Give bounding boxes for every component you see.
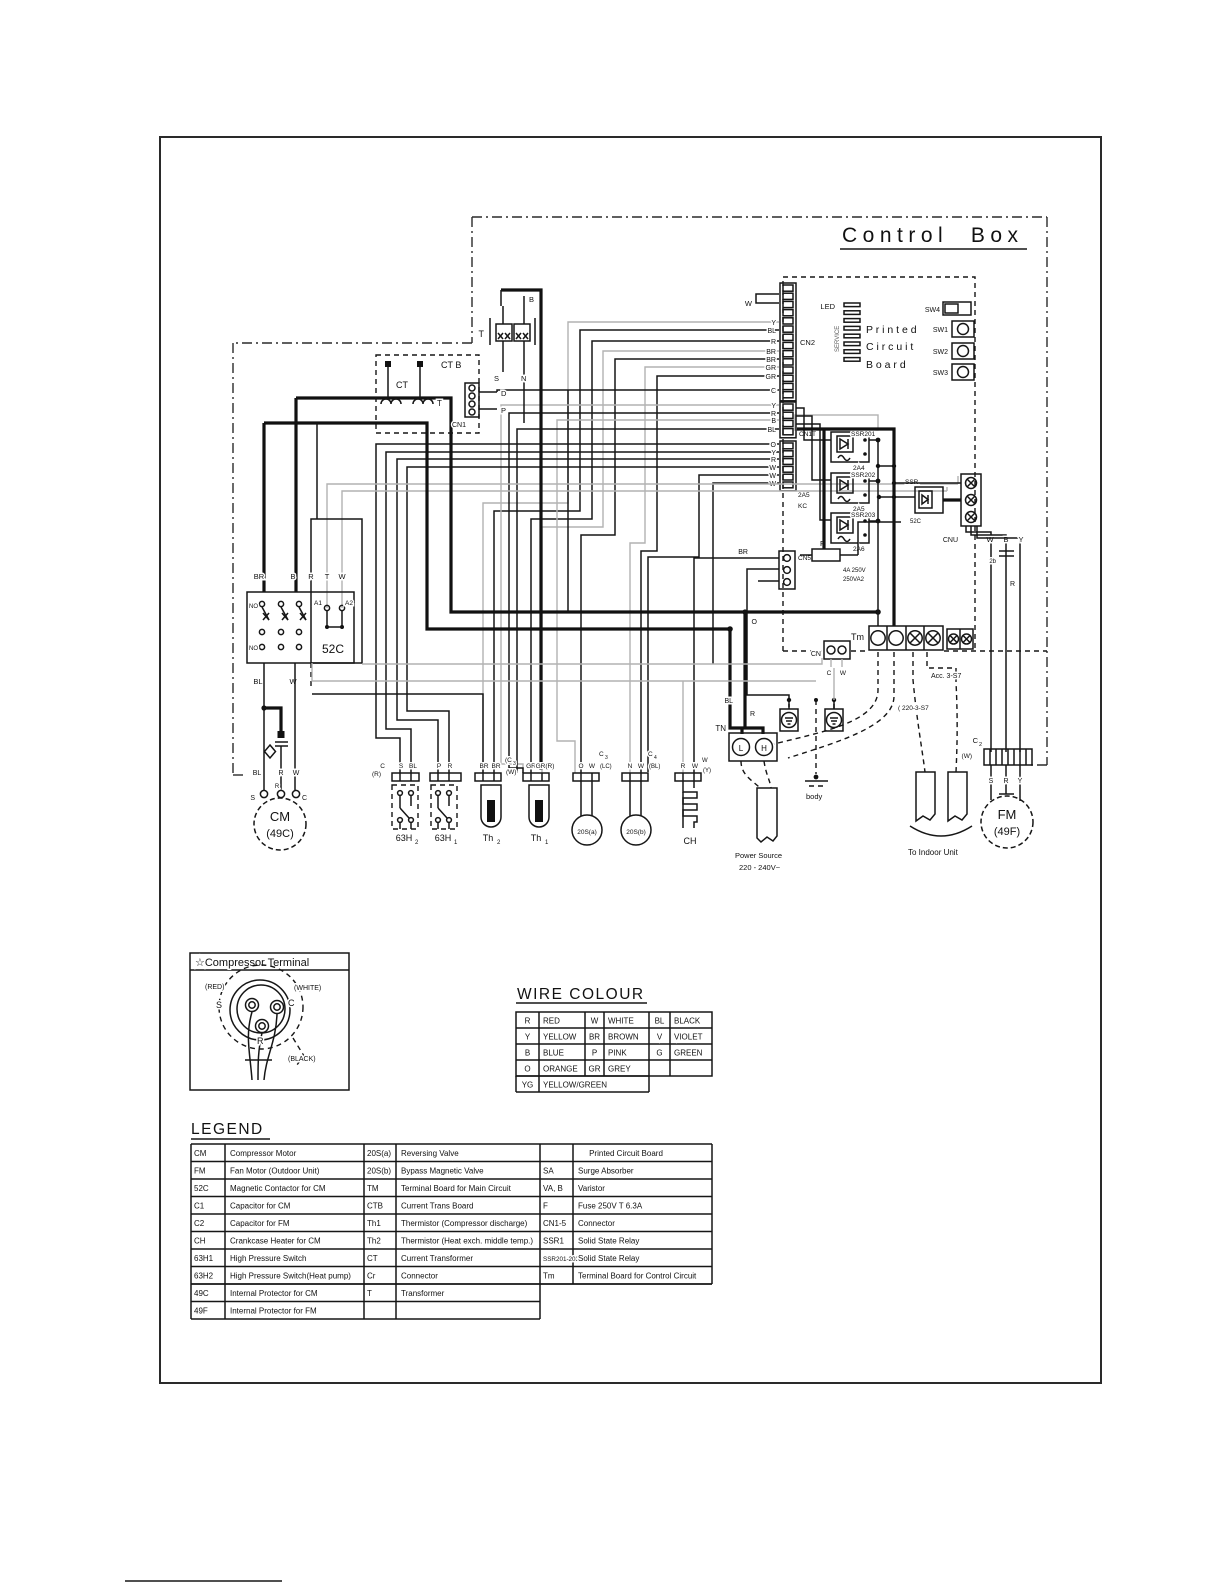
current transformer CT: [381, 361, 433, 404]
current transformer CT box (dashed): [376, 355, 479, 433]
earth ground 2: [825, 668, 843, 731]
svg-text:BL: BL: [409, 763, 417, 770]
PCB text label: [866, 324, 917, 371]
svg-text:Solid State Relay: Solid State Relay: [578, 1237, 639, 1246]
wire 52C coil A1 (grey, long): [327, 484, 958, 608]
svg-text:GREY: GREY: [608, 1065, 631, 1074]
svg-text:(WHITE): (WHITE): [294, 985, 321, 992]
svg-text:Y: Y: [771, 450, 776, 457]
svg-text:Solid State Relay: Solid State Relay: [578, 1254, 639, 1263]
dashed stub below 52C: [310, 663, 312, 690]
svg-text:P: P: [501, 406, 506, 415]
svg-text:Current Transformer: Current Transformer: [401, 1254, 473, 1263]
svg-text:YG: YG: [522, 1081, 534, 1090]
svg-text:63H: 63H: [396, 833, 413, 843]
svg-text:R: R: [525, 1017, 531, 1026]
wire W hook at CN2 top: [745, 294, 779, 308]
svg-text:LED: LED: [820, 302, 835, 311]
fuse F: [800, 522, 901, 583]
wire heavy bus to Tm: [869, 429, 961, 626]
earth ground 1: [780, 704, 798, 731]
wire CN2 pin BR to lower component: [581, 357, 779, 773]
labels BL R W above CM: [253, 770, 300, 790]
svg-text:ORANGE: ORANGE: [543, 1065, 578, 1074]
wire SSR output bus: [869, 438, 896, 626]
grey group outline on PCB: [795, 415, 878, 430]
svg-text:63H2: 63H2: [194, 1272, 214, 1281]
solenoid valve 20S(b): [621, 773, 651, 845]
switch SW3: [933, 364, 974, 380]
svg-text:Y: Y: [771, 403, 776, 410]
wire CN2 pin BR to lower component: [542, 349, 779, 773]
svg-text:Bypass Magnetic Valve: Bypass Magnetic Valve: [401, 1167, 484, 1176]
svg-text:W: W: [745, 299, 753, 308]
thermistor Th1: [523, 773, 549, 846]
svg-text:B o a r d: B o a r d: [866, 359, 906, 371]
svg-text:O: O: [578, 763, 583, 770]
svg-text:T: T: [479, 329, 485, 339]
wire colour table: [516, 1012, 712, 1092]
svg-text:R: R: [257, 1036, 264, 1046]
wire CN4 pin W3: [713, 483, 779, 664]
svg-text:20S(a): 20S(a): [577, 829, 597, 836]
svg-text:3: 3: [605, 755, 608, 761]
svg-text:2: 2: [979, 742, 982, 748]
svg-text:BLUE: BLUE: [543, 1049, 564, 1058]
wire CN5 to earth: [747, 569, 789, 707]
wire BL 52C to CM: [261, 663, 266, 790]
PCB LED column: [820, 302, 860, 361]
wire SSR drive 1: [796, 408, 831, 440]
page border frame: [160, 137, 1101, 1383]
solid state relay SSR201: [831, 431, 876, 472]
svg-text:L: L: [739, 744, 744, 753]
svg-text:R: R: [681, 763, 686, 770]
svg-text:Crankcase Heater for CM: Crankcase Heater for CM: [230, 1237, 321, 1246]
connector CN4: [780, 441, 810, 510]
svg-text:SSR1: SSR1: [543, 1237, 564, 1246]
terminal board Tm: [851, 626, 943, 650]
wire CN4 pin W to 63H1: [407, 467, 779, 773]
svg-text:Reversing Valve: Reversing Valve: [401, 1149, 459, 1158]
svg-text:R: R: [771, 411, 776, 418]
svg-text:C: C: [648, 751, 653, 758]
svg-text:A2: A2: [345, 600, 353, 607]
svg-text:SSR202: SSR202: [851, 472, 876, 479]
svg-text:GR(R): GR(R): [536, 763, 555, 770]
labels above 52C: [254, 572, 347, 581]
svg-text:W: W: [692, 763, 699, 770]
svg-text:Connector: Connector: [578, 1219, 615, 1228]
indoor unit brace and label: [908, 826, 972, 857]
svg-text:Terminal Board for Main Circui: Terminal Board for Main Circuit: [401, 1184, 512, 1193]
svg-text:Th: Th: [531, 833, 542, 843]
legend title: [191, 1121, 270, 1139]
svg-text:S: S: [250, 795, 255, 802]
svg-text:CT B: CT B: [441, 360, 461, 370]
pressure switch 63H2: [392, 773, 419, 846]
labels above Th2: [479, 757, 516, 776]
svg-text:Control Box: Control Box: [842, 224, 1024, 247]
compressor terminal drawing: [219, 965, 304, 1080]
wire CN2 pin GR to lower component: [630, 365, 779, 773]
svg-text:GR: GR: [589, 1065, 601, 1074]
dashed field wire 2: [788, 652, 894, 758]
svg-text:Current Trans Board: Current Trans Board: [401, 1202, 473, 1211]
svg-text:20S(b): 20S(b): [626, 829, 646, 836]
svg-text:V: V: [657, 1033, 663, 1042]
svg-text:W: W: [840, 670, 847, 677]
svg-text:GR: GR: [766, 365, 777, 372]
svg-text:R: R: [1003, 778, 1008, 785]
svg-text:SSR203: SSR203: [851, 512, 876, 519]
wire D stub: [479, 389, 507, 398]
crankcase heater CH: [675, 773, 701, 846]
svg-text:To Indoor Unit: To Indoor Unit: [908, 848, 959, 857]
svg-text:O: O: [771, 442, 777, 449]
wire colour table title: [516, 986, 647, 1003]
svg-text:(BLACK): (BLACK): [288, 1056, 316, 1063]
svg-text:(49F): (49F): [994, 826, 1020, 838]
svg-text:Power Source: Power Source: [735, 851, 782, 860]
svg-text:S: S: [216, 1000, 222, 1010]
svg-text:CT: CT: [396, 380, 408, 390]
svg-text:4A 250V: 4A 250V: [843, 568, 866, 574]
svg-text:B: B: [290, 572, 295, 581]
svg-text:SW1: SW1: [933, 327, 948, 334]
svg-text:CN1: CN1: [452, 422, 466, 429]
svg-text:LEGEND: LEGEND: [191, 1121, 264, 1138]
svg-text:B: B: [771, 418, 776, 425]
svg-text:Thermistor (Heat exch. middle: Thermistor (Heat exch. middle temp.): [401, 1237, 533, 1246]
svg-text:W: W: [769, 465, 776, 472]
svg-text:Internal Protector for FM: Internal Protector for FM: [230, 1307, 317, 1316]
svg-text:SW4: SW4: [925, 307, 940, 314]
svg-text:FM: FM: [998, 807, 1017, 822]
connector CN2: [780, 283, 815, 401]
svg-text:C: C: [302, 795, 307, 802]
svg-text:C: C: [973, 736, 979, 745]
svg-text:B: B: [525, 1049, 530, 1058]
indoor unit cable 2: [948, 772, 967, 821]
switch SW1: [933, 321, 974, 337]
svg-text:20S(b): 20S(b): [367, 1167, 391, 1176]
svg-text:C: C: [771, 388, 776, 395]
switch SW2: [933, 343, 974, 359]
svg-text:W: W: [591, 1017, 599, 1026]
svg-text:R: R: [771, 339, 776, 346]
svg-text:Tm: Tm: [543, 1272, 555, 1281]
wire 52C stub to Th2: [312, 694, 483, 773]
svg-text:BR: BR: [491, 763, 500, 770]
svg-text:2b: 2b: [989, 559, 996, 565]
svg-text:KC: KC: [798, 503, 807, 510]
svg-text:BR: BR: [738, 549, 748, 556]
field wiring labels: [898, 673, 961, 712]
svg-text:W: W: [289, 677, 297, 686]
svg-text:CN2: CN2: [800, 338, 815, 347]
svg-text:49F: 49F: [194, 1307, 208, 1316]
svg-text:R: R: [771, 457, 776, 464]
legend table: [191, 1144, 712, 1319]
svg-text:(W): (W): [962, 753, 972, 760]
svg-text:SW3: SW3: [933, 370, 948, 377]
svg-text:Th1: Th1: [367, 1219, 381, 1228]
svg-text:TM: TM: [367, 1184, 379, 1193]
svg-text:BL: BL: [767, 328, 776, 335]
outdoor unit boundary (dash-dot): [233, 343, 472, 775]
svg-text:NO: NO: [249, 646, 258, 652]
svg-text:CH: CH: [684, 836, 697, 846]
wire branch to R terminal (heavy) with capacitor: [264, 708, 288, 790]
connector CN1 on CT board: [452, 383, 479, 429]
svg-text:PINK: PINK: [608, 1049, 627, 1058]
wire CN5 stub: [758, 580, 779, 582]
compressor terminal labels: [205, 984, 321, 1063]
svg-text:Transformer: Transformer: [401, 1289, 445, 1298]
dashed leads TN to power source: [741, 761, 771, 788]
svg-text:T: T: [325, 572, 330, 581]
svg-text:W: W: [702, 758, 708, 764]
svg-text:body: body: [806, 792, 823, 801]
svg-text:High Pressure Switch: High Pressure Switch: [230, 1254, 306, 1263]
svg-text:Surge Absorber: Surge Absorber: [578, 1167, 634, 1176]
svg-text:CN5: CN5: [798, 555, 811, 562]
wire CN2 pin BL to lower component: [494, 328, 779, 773]
DIP switch SW4: [925, 302, 971, 315]
svg-text:P r i n t e d: P r i n t e d: [866, 324, 917, 336]
svg-text:52C: 52C: [194, 1184, 209, 1193]
svg-text:P: P: [592, 1049, 597, 1058]
svg-text:CN: CN: [811, 651, 821, 658]
svg-text:( 220-3-S7: ( 220-3-S7: [898, 705, 929, 712]
svg-text:CN1-5: CN1-5: [543, 1219, 567, 1228]
svg-text:GR: GR: [766, 374, 777, 381]
svg-text:(BL): (BL): [649, 764, 660, 770]
connector CN3: [780, 402, 796, 438]
svg-text:R: R: [308, 572, 314, 581]
svg-text:VA, B: VA, B: [543, 1184, 563, 1193]
svg-text:W: W: [338, 572, 346, 581]
svg-text:(W): (W): [506, 769, 516, 776]
wire CN3 pin Y: [501, 405, 779, 773]
dashed field wire 1: [774, 652, 878, 744]
svg-text:Thermistor (Compressor dischar: Thermistor (Compressor discharge): [401, 1219, 528, 1228]
svg-text:BROWN: BROWN: [608, 1033, 639, 1042]
dashed field wire to indoor 2: [927, 652, 957, 772]
wire CN2 pin GR to lower component: [641, 374, 779, 773]
wire SSR drive 3: [796, 424, 831, 520]
svg-text:Acc. 3-S7: Acc. 3-S7: [931, 673, 961, 680]
wire 52C R pole feed: [316, 423, 318, 519]
svg-text:(Y): (Y): [703, 768, 711, 774]
magnetic contactor 52C box: [247, 519, 362, 663]
svg-text:CH: CH: [194, 1237, 206, 1246]
svg-text:FM: FM: [194, 1167, 206, 1176]
svg-text:(LC): (LC): [600, 764, 612, 770]
control box boundary (dash-dot): [472, 217, 1047, 765]
terminal TN block: [715, 724, 777, 761]
wire fan Y: [977, 526, 1024, 752]
connector CNU: [943, 474, 981, 544]
svg-text:WHITE: WHITE: [608, 1017, 634, 1026]
svg-text:Y: Y: [525, 1033, 531, 1042]
svg-text:S: S: [399, 763, 404, 770]
svg-text:CM: CM: [194, 1149, 207, 1158]
wire CN3 pin R: [509, 413, 779, 773]
wire CN4 pin Y to 63H2: [386, 452, 779, 773]
svg-text:Fan Motor (Outdoor Unit): Fan Motor (Outdoor Unit): [230, 1167, 320, 1176]
svg-text:W: W: [589, 763, 596, 770]
connector CN5: [779, 551, 811, 589]
wire grey 52C to CN W: [362, 658, 822, 664]
svg-text:GREEN: GREEN: [674, 1049, 703, 1058]
svg-text:SERVICE: SERVICE: [835, 326, 841, 352]
svg-text:Terminal Board for Control Cir: Terminal Board for Control Circuit: [578, 1272, 697, 1281]
compressor motor CM (49C): [254, 798, 306, 850]
svg-text:Cr: Cr: [367, 1272, 376, 1281]
svg-text:R: R: [278, 770, 283, 777]
svg-text:B: B: [529, 295, 534, 304]
svg-text:S: S: [989, 778, 994, 785]
svg-text:Printed Circuit Board: Printed Circuit Board: [589, 1149, 663, 1158]
connector CN W: [811, 641, 850, 677]
transformer T: [479, 295, 536, 423]
wire fan B with capacitor: [971, 526, 1014, 752]
svg-text:Tm: Tm: [851, 632, 864, 642]
compressor terminal detail box: [190, 953, 349, 1090]
solid state relay SSR (fan): [905, 479, 943, 525]
wire W 52C to CM: [294, 663, 296, 790]
svg-text:Th2: Th2: [367, 1237, 381, 1246]
svg-text:C2: C2: [194, 1219, 205, 1228]
52C contacts: [249, 601, 306, 652]
svg-text:Y: Y: [1018, 778, 1023, 785]
52C coil terminals A1 A2: [314, 600, 353, 629]
power source box: [735, 788, 782, 872]
labels above 63H1: [437, 763, 453, 770]
svg-text:SSR201-203: SSR201-203: [543, 1256, 580, 1263]
svg-text:BL: BL: [253, 677, 262, 686]
wire CN4 pin O to 63H2: [376, 444, 779, 773]
svg-text:BLACK: BLACK: [674, 1017, 701, 1026]
fan motor FM (49F): [981, 794, 1033, 848]
svg-text:C: C: [288, 998, 295, 1008]
svg-text:High Pressure Switch(Heat pump: High Pressure Switch(Heat pump): [230, 1272, 351, 1281]
svg-text:220 - 240V~: 220 - 240V~: [739, 863, 781, 872]
svg-text:(49C): (49C): [266, 828, 294, 840]
svg-text:BR: BR: [589, 1033, 600, 1042]
solid state relay SSR203: [831, 512, 876, 553]
svg-text:O: O: [752, 619, 758, 626]
svg-text:Y: Y: [771, 320, 776, 327]
svg-text:N: N: [521, 374, 526, 383]
svg-text:TN: TN: [715, 724, 726, 733]
svg-text:2A6: 2A6: [853, 546, 865, 553]
svg-text:YELLOW/GREEN: YELLOW/GREEN: [543, 1081, 607, 1090]
footer blue link bar: [125, 1580, 282, 1582]
svg-text:52C: 52C: [322, 642, 344, 656]
capacitor C2: [962, 736, 1032, 765]
wire fan W: [966, 526, 994, 752]
thermistor Th2: [475, 773, 501, 846]
pressure switch 63H1: [430, 773, 461, 846]
svg-text:CM: CM: [270, 809, 290, 824]
svg-text:SSR201: SSR201: [851, 431, 876, 438]
svg-text:R: R: [275, 784, 280, 790]
svg-text:CTB: CTB: [367, 1202, 383, 1211]
svg-text:R: R: [1010, 581, 1015, 588]
svg-text:63H1: 63H1: [194, 1254, 214, 1263]
svg-text:YELLOW: YELLOW: [543, 1033, 577, 1042]
svg-text:Fuse 250V T 6.3A: Fuse 250V T 6.3A: [578, 1202, 643, 1211]
wire CN2 pin Y to lower component: [483, 320, 779, 773]
svg-text:W: W: [293, 770, 300, 777]
svg-text:A1: A1: [314, 600, 322, 607]
svg-text:WIRE COLOUR: WIRE COLOUR: [517, 986, 645, 1003]
svg-text:RED: RED: [543, 1017, 560, 1026]
labels above 63H2: [372, 763, 417, 778]
wire CN3 pin BL (heavy): [517, 429, 779, 773]
wire CN4 pin W2 to 20S(b): [648, 475, 779, 772]
labels above 20S(a): [578, 751, 611, 770]
wire CN3 pin B: [557, 420, 779, 773]
svg-text:20S(a): 20S(a): [367, 1149, 391, 1158]
svg-text:CT: CT: [367, 1254, 378, 1263]
control box inner partition (dashed): [782, 430, 784, 651]
svg-text:D: D: [501, 389, 507, 398]
svg-text:Capacitor for FM: Capacitor for FM: [230, 1219, 290, 1228]
svg-text:S: S: [494, 374, 499, 383]
svg-text:BR: BR: [479, 763, 488, 770]
svg-text:G: G: [656, 1049, 662, 1058]
svg-text:250VA2: 250VA2: [843, 577, 865, 583]
svg-text:SA: SA: [543, 1167, 554, 1176]
svg-text:CN1T: CN1T: [799, 431, 816, 438]
svg-text:W: W: [769, 473, 776, 480]
wire heavy PCB right feed: [797, 429, 869, 549]
svg-text:R: R: [750, 711, 755, 718]
wire 52C coil A2 (grey, long): [342, 491, 947, 608]
svg-text:Capacitor for CM: Capacitor for CM: [230, 1202, 291, 1211]
svg-text:O: O: [524, 1065, 530, 1074]
svg-text:W: W: [638, 763, 645, 770]
svg-text:Connector: Connector: [401, 1272, 438, 1281]
wire CN5 BR to CH: [694, 558, 779, 773]
svg-text:Th: Th: [483, 833, 494, 843]
svg-text:SW2: SW2: [933, 349, 948, 356]
CM terminal circles: [250, 790, 307, 802]
wire SSR fan feed: [877, 495, 915, 499]
wire CN2 pin R to lower component: [531, 339, 779, 773]
svg-text:(R): (R): [372, 771, 381, 778]
svg-text:☆Compressor Terminal: ☆Compressor Terminal: [195, 957, 309, 969]
svg-text:63H: 63H: [435, 833, 452, 843]
svg-text:Varistor: Varistor: [578, 1184, 605, 1193]
svg-text:BL: BL: [655, 1017, 665, 1026]
svg-text:4: 4: [654, 755, 657, 761]
terminal board Tm extra cells: [947, 629, 973, 649]
svg-text:B: B: [1003, 535, 1008, 544]
svg-text:2A5: 2A5: [798, 492, 810, 499]
wire SSR drive 2: [796, 416, 831, 480]
svg-text:F: F: [543, 1202, 548, 1211]
svg-text:T: T: [367, 1289, 372, 1298]
svg-text:(C: (C: [505, 757, 512, 764]
svg-text:BL: BL: [724, 698, 733, 705]
wire CN4 pin R to 63H1: [397, 459, 779, 773]
svg-text:CNU: CNU: [943, 537, 958, 544]
